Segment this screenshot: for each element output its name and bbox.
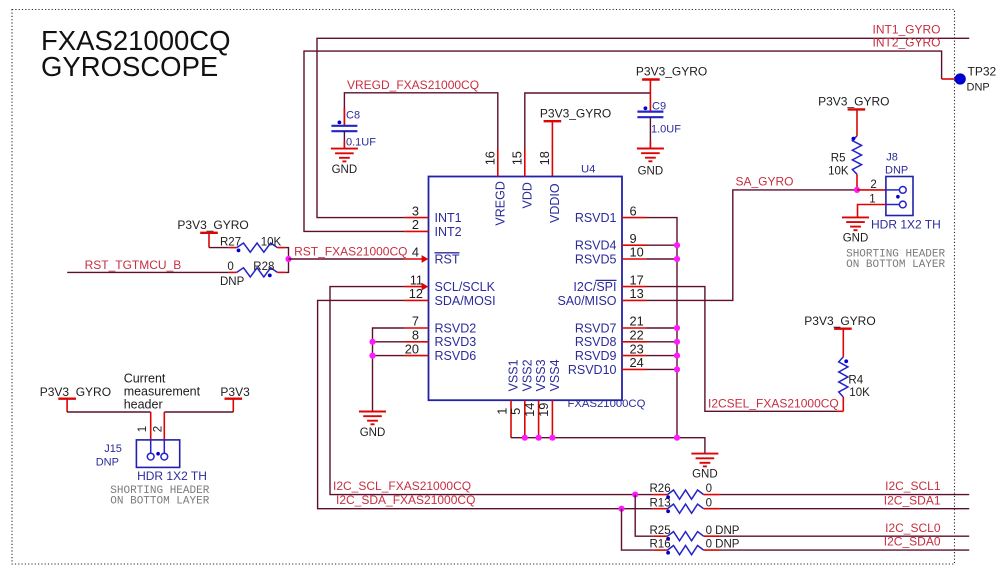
- svg-text:22: 22: [630, 328, 644, 343]
- junction node VSS3: [536, 435, 542, 441]
- svg-text:DNP: DNP: [885, 165, 908, 177]
- ground below RSVD wires: [359, 411, 386, 413]
- svg-text:ON BOTTOM LAYER: ON BOTTOM LAYER: [110, 496, 209, 508]
- svg-text:15: 15: [510, 151, 525, 165]
- junction node RSVD8: [674, 339, 680, 345]
- svg-text:VSS2: VSS2: [520, 359, 534, 391]
- junction node RSVD3: [369, 339, 375, 345]
- svg-text:I2C_SDA1: I2C_SDA1: [884, 493, 941, 507]
- svg-text:RSVD7: RSVD7: [575, 321, 617, 335]
- svg-text:R26: R26: [650, 483, 671, 495]
- svg-text:R27: R27: [220, 236, 241, 248]
- svg-text:P3V3_GYRO: P3V3_GYRO: [540, 107, 611, 121]
- wire SA_GYRO from U4 pin 13: [647, 190, 858, 301]
- U4 pin 11 SCL/SCLK input arrow: [404, 286, 423, 288]
- svg-text:header: header: [124, 398, 163, 412]
- junction node VSS2: [522, 435, 528, 441]
- svg-text:P3V3_GYRO: P3V3_GYRO: [177, 218, 248, 232]
- svg-text:INT2_GYRO: INT2_GYRO: [872, 36, 940, 50]
- svg-text:P3V3_GYRO: P3V3_GYRO: [804, 314, 875, 328]
- wire VSS to ground: [511, 438, 705, 454]
- svg-text:RSVD4: RSVD4: [575, 239, 617, 253]
- svg-text:1: 1: [869, 193, 875, 205]
- svg-text:12: 12: [409, 286, 423, 301]
- svg-text:RSVD5: RSVD5: [575, 252, 617, 266]
- svg-text:I2C/SPI: I2C/SPI: [573, 280, 616, 294]
- svg-text:13: 13: [630, 286, 644, 301]
- resistor R5 10K: [856, 109, 858, 135]
- U4 pin 5 VSS2: [524, 400, 526, 438]
- U4 pin 7 RSVD2: [404, 327, 428, 329]
- wire C8 to ground: [343, 131, 345, 148]
- junction node RSVD6: [369, 353, 375, 359]
- svg-text:J8: J8: [886, 151, 898, 163]
- svg-text:measurement: measurement: [124, 385, 201, 399]
- svg-text:17: 17: [630, 272, 644, 287]
- wire INT1_GYRO from U4 pin 3: [317, 38, 969, 217]
- resistor R4 10K: [842, 329, 844, 357]
- svg-text:I2C_SDA0: I2C_SDA0: [884, 535, 941, 549]
- junction node I2C_SCL branch: [632, 492, 638, 498]
- svg-text:11: 11: [410, 272, 423, 287]
- resistor R25 0 DNP: [653, 535, 667, 537]
- svg-text:10K: 10K: [261, 236, 282, 248]
- U4 pin 23 RSVD9: [622, 355, 647, 357]
- svg-text:R4: R4: [848, 375, 863, 387]
- svg-text:0: 0: [706, 483, 712, 495]
- svg-text:23: 23: [630, 341, 644, 356]
- U4 pin 13 SA0/MISO: [622, 299, 647, 301]
- svg-text:FXAS21000CQ: FXAS21000CQ: [568, 398, 646, 410]
- svg-text:SDA/MOSI: SDA/MOSI: [435, 294, 496, 308]
- U4 pin 6 RSVD1: [622, 217, 647, 219]
- svg-text:0 DNP: 0 DNP: [706, 525, 740, 537]
- U4 pin 2 INT2: [404, 230, 428, 232]
- svg-text:P3V3: P3V3: [220, 385, 250, 399]
- svg-text:R16: R16: [650, 539, 671, 551]
- wire I2C/SPI to I2CSEL: [647, 287, 838, 412]
- svg-text:RST_FXAS21000CQ: RST_FXAS21000CQ: [294, 245, 407, 259]
- svg-text:0 DNP: 0 DNP: [706, 539, 740, 551]
- wire I2C_SDA_FXAS21000CQ: [318, 300, 654, 508]
- junction node RSVD5: [674, 256, 680, 262]
- svg-text:8: 8: [412, 328, 419, 343]
- wire P3V3 to J15 pin 2: [164, 411, 233, 413]
- svg-text:ON BOTTOM LAYER: ON BOTTOM LAYER: [846, 259, 945, 271]
- wire VREGD_FXAS21000CQ: [344, 93, 497, 149]
- U4 pin 24 RSVD10: [622, 368, 647, 370]
- junction node RSVD10: [674, 366, 680, 372]
- wire I2C_SCL_FXAS21000CQ: [330, 287, 653, 495]
- svg-text:GND: GND: [692, 468, 718, 480]
- svg-text:VREGD: VREGD: [493, 181, 507, 225]
- resistor R13 0: [653, 508, 667, 510]
- U4 pin 16 VREGD: [497, 149, 499, 177]
- junction node RSVD9: [674, 353, 680, 359]
- svg-text:20: 20: [405, 341, 419, 356]
- svg-text:Current: Current: [124, 372, 166, 386]
- svg-text:SCL/SCLK: SCL/SCLK: [435, 280, 496, 294]
- U4 pin 14 VSS3: [538, 400, 540, 438]
- resistor R27 10K: [229, 247, 237, 249]
- wire to test point TP32: [942, 78, 956, 80]
- junction node VSS4: [549, 435, 555, 441]
- junction node RSVD bus to VSS: [674, 435, 680, 441]
- U4 pin 19 VSS4: [551, 400, 553, 438]
- svg-text:GYROSCOPE: GYROSCOPE: [41, 51, 218, 82]
- wire P3V3 to R27: [209, 247, 229, 249]
- svg-text:VSS1: VSS1: [507, 359, 521, 391]
- junction node RSVD7: [674, 325, 680, 331]
- svg-text:18: 18: [537, 151, 552, 165]
- header J15 HDR 1X2 TH: [136, 440, 179, 468]
- svg-text:2: 2: [412, 217, 419, 232]
- wire I2C_SCL1: [720, 494, 970, 496]
- svg-text:RSVD6: RSVD6: [435, 349, 477, 363]
- wire RSVD1 bus: [647, 218, 678, 438]
- svg-text:R5: R5: [831, 153, 846, 165]
- U4 pin 21 RSVD7: [622, 327, 647, 329]
- svg-text:SA_GYRO: SA_GYRO: [736, 175, 794, 189]
- wire J8 pin 1 to ground: [858, 205, 886, 218]
- svg-text:3: 3: [412, 203, 419, 218]
- svg-text:C8: C8: [346, 109, 360, 121]
- wire VDD to P3V3_GYRO and C9: [525, 93, 651, 149]
- svg-text:RSVD8: RSVD8: [575, 335, 617, 349]
- wire P3V3_GYRO to J15 pin 1: [67, 411, 151, 413]
- ground below C8: [331, 148, 358, 150]
- svg-text:P3V3_GYRO: P3V3_GYRO: [636, 64, 707, 78]
- svg-text:U4: U4: [581, 164, 595, 176]
- wire I2C_SCL0: [720, 535, 970, 537]
- resistor R28 0 DNP: [229, 271, 237, 273]
- svg-text:1: 1: [494, 408, 509, 415]
- svg-text:16: 16: [483, 151, 498, 165]
- svg-text:I2C_SDA_FXAS21000CQ: I2C_SDA_FXAS21000CQ: [336, 493, 475, 507]
- svg-text:R28: R28: [253, 261, 274, 273]
- svg-text:INT1_GYRO: INT1_GYRO: [872, 23, 940, 37]
- svg-text:VDDIO: VDDIO: [548, 183, 562, 223]
- capacitor C8: [343, 108, 345, 125]
- svg-text:I2C_SCL_FXAS21000CQ: I2C_SCL_FXAS21000CQ: [333, 479, 471, 493]
- svg-text:P3V3_GYRO: P3V3_GYRO: [818, 95, 889, 109]
- svg-text:10K: 10K: [828, 166, 849, 178]
- ground below C9: [637, 148, 664, 150]
- U4 pin 1 VSS1: [510, 400, 512, 438]
- svg-text:HDR 1X2 TH: HDR 1X2 TH: [137, 469, 207, 483]
- svg-text:J15: J15: [104, 443, 122, 455]
- wire RSVD2 RSVD3 RSVD6 to ground: [373, 328, 405, 412]
- svg-text:10K: 10K: [849, 387, 870, 399]
- svg-text:TP32: TP32: [968, 64, 997, 78]
- svg-text:RSVD1: RSVD1: [575, 211, 617, 225]
- ground below J8: [842, 216, 869, 218]
- wire branch to R25: [635, 495, 653, 537]
- junction node SA_GYRO at R5: [854, 187, 860, 193]
- svg-text:GND: GND: [360, 427, 386, 439]
- U4 pin 15 VDD: [524, 149, 526, 177]
- svg-text:INT1: INT1: [435, 211, 462, 225]
- svg-text:RSVD10: RSVD10: [568, 363, 617, 377]
- junction node RSVD4: [674, 242, 680, 248]
- svg-text:R25: R25: [650, 525, 671, 537]
- resistor R16 0 DNP: [653, 549, 667, 551]
- svg-text:DNP: DNP: [96, 456, 119, 468]
- svg-text:INT2: INT2: [435, 225, 462, 239]
- wire R27 to RST junction: [285, 248, 288, 273]
- U4 pin 3 INT1: [404, 217, 428, 219]
- svg-text:RSVD2: RSVD2: [435, 321, 477, 335]
- svg-text:24: 24: [630, 355, 644, 370]
- wire C9 to ground: [649, 117, 651, 148]
- svg-text:I2CSEL_FXAS21000CQ: I2CSEL_FXAS21000CQ: [708, 396, 839, 410]
- wire INT2_GYRO from U4 pin 2: [304, 51, 942, 231]
- svg-text:R13: R13: [650, 497, 671, 509]
- svg-text:0.1UF: 0.1UF: [346, 136, 376, 148]
- wire RST_TGTMCU_B: [67, 271, 229, 273]
- svg-text:VDD: VDD: [520, 182, 534, 208]
- wire branch to R16: [622, 509, 654, 550]
- svg-text:0: 0: [706, 497, 712, 509]
- svg-text:0: 0: [227, 261, 233, 273]
- svg-text:RST_TGTMCU_B: RST_TGTMCU_B: [85, 258, 182, 272]
- svg-text:DNP: DNP: [967, 81, 990, 93]
- svg-text:2: 2: [152, 426, 164, 432]
- svg-text:4: 4: [412, 245, 419, 260]
- svg-text:SA0/MISO: SA0/MISO: [557, 294, 616, 308]
- svg-text:21: 21: [630, 314, 644, 329]
- U4 pin 20 RSVD6: [404, 355, 428, 357]
- header J8 HDR 1X2 TH: [886, 177, 913, 216]
- U4 pin 12 SDA/MOSI: [404, 299, 428, 301]
- svg-text:1.0UF: 1.0UF: [651, 124, 681, 136]
- svg-text:VSS3: VSS3: [534, 359, 548, 391]
- U4 pin 8 RSVD3: [404, 341, 428, 343]
- svg-text:1: 1: [137, 426, 149, 432]
- U4 pin 17 I2C/SPI: [622, 286, 647, 288]
- U4 pin 22 RSVD8: [622, 341, 647, 343]
- wire RST_FXAS21000CQ to U4 pin 4: [289, 258, 405, 260]
- junction node I2C_SDA branch: [618, 506, 624, 512]
- svg-text:5: 5: [508, 408, 523, 415]
- svg-text:RSVD9: RSVD9: [575, 349, 617, 363]
- svg-text:2: 2: [870, 179, 876, 191]
- svg-text:14: 14: [522, 403, 537, 417]
- svg-text:GND: GND: [638, 165, 664, 177]
- U4 pin 10 RSVD5: [622, 258, 647, 260]
- svg-text:DNP: DNP: [220, 276, 245, 288]
- test point TP32: [955, 73, 966, 84]
- svg-text:VREGD_FXAS21000CQ: VREGD_FXAS21000CQ: [347, 78, 479, 92]
- svg-text:P3V3_GYRO: P3V3_GYRO: [40, 385, 111, 399]
- svg-text:C9: C9: [652, 100, 666, 112]
- svg-text:HDR 1X2 TH: HDR 1X2 TH: [871, 218, 941, 232]
- junction node RST_FXAS21000CQ: [285, 256, 291, 262]
- U4 pin 4 RST input arrow: [404, 258, 423, 260]
- resistor R26 0: [653, 494, 667, 496]
- svg-text:I2C_SCL1: I2C_SCL1: [885, 479, 941, 493]
- IC U4 FXAS21000CQ body: [429, 177, 623, 401]
- capacitor C9: [637, 110, 663, 112]
- U4 pin 9 RSVD4: [622, 244, 647, 246]
- wire I2C_SDA1: [720, 508, 970, 510]
- wire I2C_SDA0: [720, 549, 970, 551]
- wire SA_GYRO to J8 pin 2: [857, 189, 886, 191]
- svg-text:10: 10: [630, 245, 644, 260]
- svg-text:RSVD3: RSVD3: [435, 335, 477, 349]
- svg-text:7: 7: [412, 314, 419, 329]
- ground below VSS wire: [691, 453, 718, 455]
- svg-text:I2C_SCL0: I2C_SCL0: [885, 521, 941, 535]
- svg-text:GND: GND: [332, 164, 358, 176]
- svg-text:9: 9: [630, 231, 637, 246]
- svg-text:VSS4: VSS4: [548, 359, 562, 391]
- svg-text:19: 19: [536, 403, 551, 417]
- svg-text:RST: RST: [435, 252, 460, 266]
- svg-text:6: 6: [630, 203, 637, 218]
- svg-text:GND: GND: [843, 233, 869, 245]
